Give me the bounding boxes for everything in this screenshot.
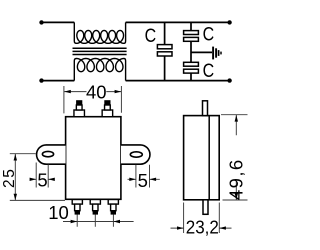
pin: front view bottom terminal 1 (72, 200, 82, 215)
capacitor Cy2: lower Y-capacitor (184, 62, 199, 66)
mounting tab: right ear with slot (121, 145, 150, 164)
svg-text:C: C (145, 24, 157, 46)
wire: top rail from choke to output (126, 21, 230, 23)
svg-text:5: 5 (37, 170, 47, 191)
dimension 25: slot line to bottom (1, 154, 65, 201)
dimension 10: bottom pin pitch (48, 202, 133, 227)
dimension 5: right tab slot offset (128, 165, 160, 191)
pin: front view bottom terminal 3 (108, 200, 118, 215)
svg-text:C: C (203, 23, 215, 45)
dimension 49,6: body height (221, 115, 248, 200)
svg-text:40: 40 (86, 81, 107, 102)
side view: filter body outline (184, 116, 220, 200)
ground: chassis earth symbol (213, 47, 221, 60)
inductor L1: common-mode choke top winding (74, 22, 125, 43)
wire: bottom rail from choke to output (126, 80, 230, 82)
node: top-right terminal dot (227, 20, 231, 24)
pin: front view top terminal 1 (74, 100, 85, 117)
wire: Y-capacitor midpoint to chassis ground (191, 51, 212, 53)
dimension 23,2: body depth (171, 203, 232, 238)
capacitor Cx: X-capacitor across the lines (164, 22, 166, 80)
mounting tab: left ear with slot (37, 145, 66, 164)
node: top-left terminal dot (39, 20, 43, 24)
svg-text:5: 5 (138, 170, 148, 191)
node: bottom-left terminal dot (39, 78, 43, 82)
dimension 40: width of body (64, 81, 122, 113)
dimension 5: left tab slot offset (30, 163, 55, 191)
svg-text:10: 10 (48, 202, 69, 223)
svg-text:25: 25 (1, 168, 18, 188)
pin: side view bottom pin (203, 200, 208, 215)
capacitor Cy1: upper Y-capacitor (190, 22, 192, 80)
front view: filter body outline (66, 117, 121, 200)
svg-text:C: C (203, 59, 215, 81)
pin: side view top pin (203, 101, 208, 116)
inductor L1: core lines (73, 48, 127, 54)
svg-text:23,2: 23,2 (186, 217, 219, 238)
pin: front view top terminal 2 (102, 100, 113, 117)
node: bottom-right terminal dot (227, 78, 231, 82)
wire: top-left input wire (42, 21, 75, 23)
side view: case edge line (208, 116, 210, 200)
pin: front view bottom terminal 2 (90, 200, 100, 215)
svg-text:49,6: 49,6 (226, 158, 247, 200)
wire: bottom-left input wire (42, 80, 75, 82)
inductor L1: common-mode choke bottom winding (74, 59, 125, 81)
